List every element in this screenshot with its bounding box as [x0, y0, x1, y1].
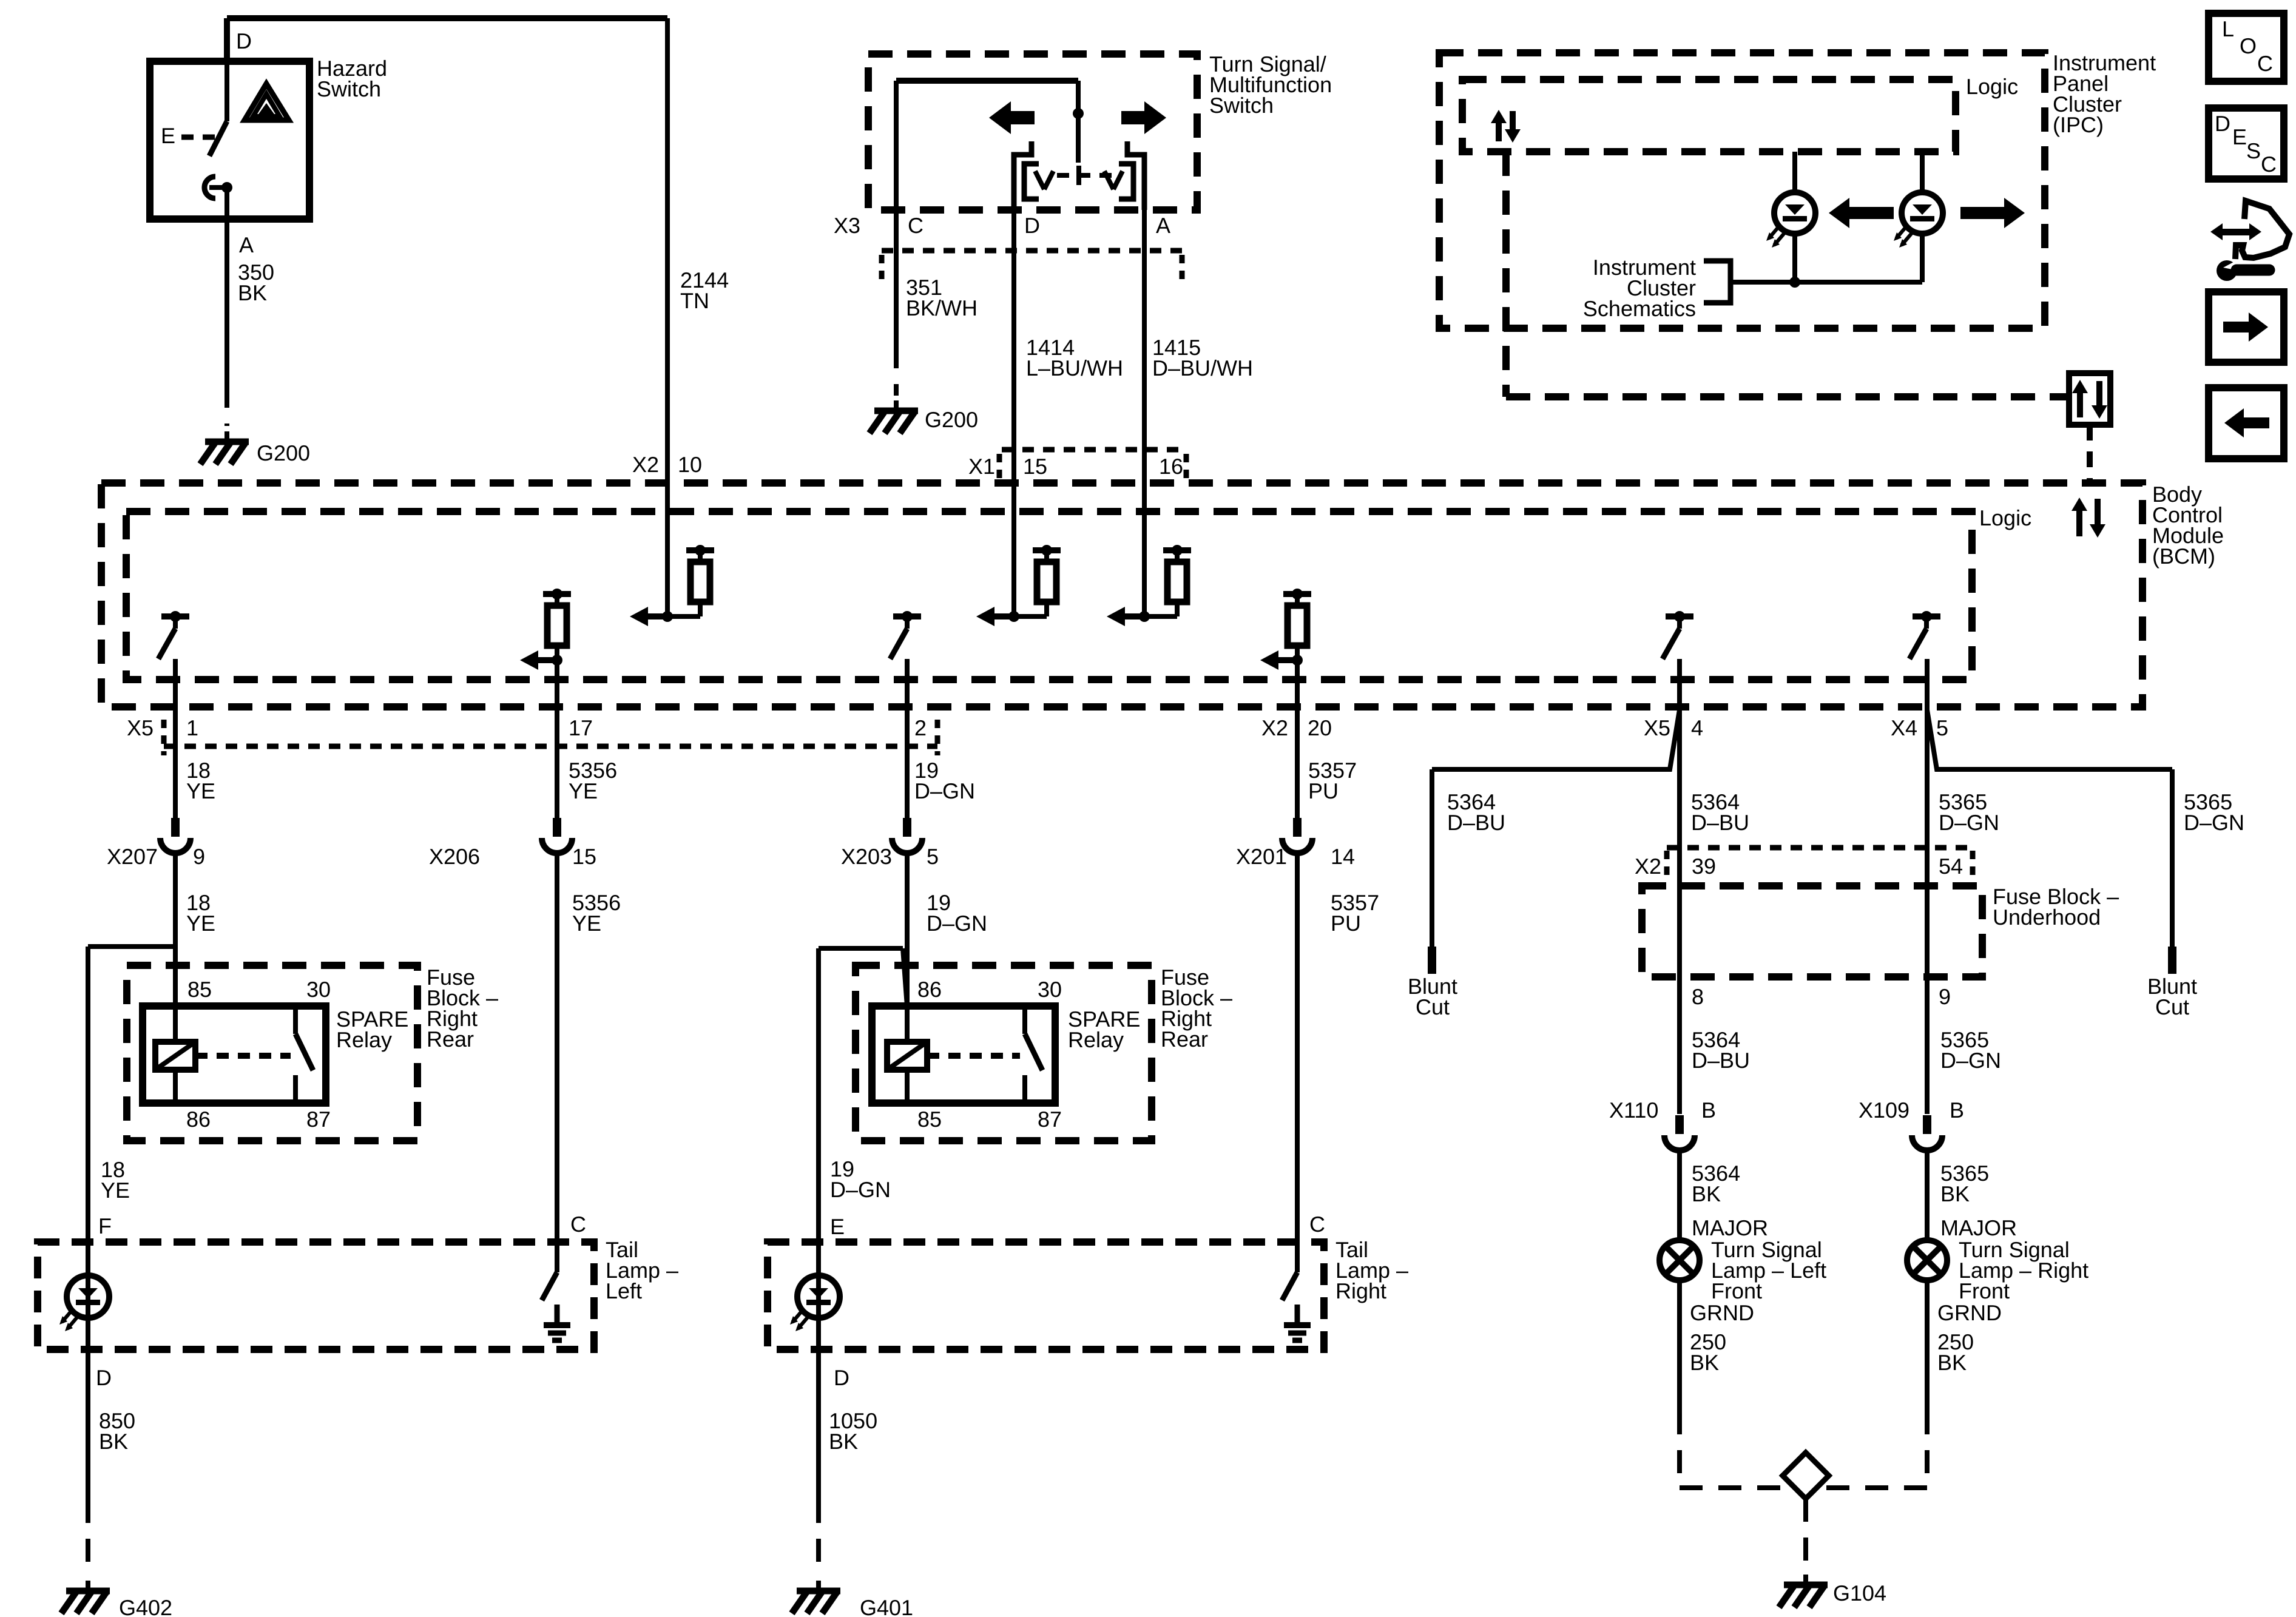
- svg-text:YE: YE: [569, 778, 598, 803]
- tail lamp right LED wire: [816, 1242, 821, 1349]
- svg-text:Underhood: Underhood: [1993, 905, 2101, 930]
- turn signal left arrow: [989, 101, 1035, 134]
- wire 5365 BK: [1925, 1150, 1930, 1240]
- svg-text:O: O: [2240, 33, 2257, 58]
- body control module box: [101, 483, 2142, 707]
- instrument cluster schematics label: [1583, 255, 1696, 321]
- wire 5364 branch: [1432, 710, 1680, 947]
- wire hazard feed top: [227, 18, 667, 61]
- splice to ground dashed: [1803, 1499, 1808, 1570]
- svg-text:Rear: Rear: [1161, 1027, 1208, 1052]
- instrument panel cluster box: [1439, 53, 2045, 328]
- hazard switch box: [150, 61, 309, 219]
- IPC logic label: [1966, 74, 2018, 99]
- BCM switch pin2: [890, 611, 921, 659]
- svg-text:D–GN: D–GN: [914, 778, 975, 803]
- IPC label: [2053, 50, 2156, 137]
- svg-text:D: D: [1024, 213, 1040, 238]
- BCM label: [2152, 482, 2224, 569]
- blunt cut right: [2147, 947, 2197, 1019]
- IPC logic box: [1462, 79, 1956, 152]
- svg-text:BK: BK: [99, 1429, 128, 1454]
- wire 5364 BK: [1677, 1150, 1682, 1240]
- wire switch common: [896, 81, 1078, 210]
- svg-text:D–GN: D–GN: [2184, 810, 2244, 835]
- node D label left: [96, 1365, 112, 1390]
- sidebar icon DESC: [2209, 108, 2284, 179]
- svg-text:Relay: Relay: [1068, 1027, 1124, 1052]
- wire 19 D-GN label upper: [914, 758, 975, 803]
- connector X3 row: [834, 213, 1182, 282]
- svg-text:Left: Left: [606, 1278, 642, 1303]
- wire 1050 BK label: [829, 1408, 877, 1454]
- resistor output 17: [520, 589, 571, 670]
- ground G402: [61, 1581, 172, 1617]
- svg-text:X3: X3: [834, 213, 860, 238]
- tail lamp left box: [38, 1242, 594, 1349]
- svg-text:9: 9: [193, 844, 205, 869]
- svg-text:X206: X206: [429, 844, 480, 869]
- svg-text:20: 20: [1308, 715, 1332, 740]
- svg-text:Cut: Cut: [1416, 994, 1450, 1019]
- turn signal switch label: [1209, 52, 1332, 118]
- svg-text:30: 30: [306, 977, 331, 1002]
- wire to pivot: [1073, 81, 1084, 163]
- wire 250 BK right dashed: [1825, 1411, 1927, 1488]
- resistor 2144 input: [630, 545, 714, 626]
- svg-text:87: 87: [306, 1107, 331, 1132]
- connector X1 row: [968, 450, 1186, 482]
- svg-text:B: B: [1950, 1098, 1964, 1122]
- svg-text:D–BU: D–BU: [1691, 810, 1749, 835]
- svg-text:14: 14: [1331, 844, 1355, 869]
- wire 5356 YE label upper: [569, 758, 617, 803]
- wire 351 dashed to ground: [894, 345, 899, 396]
- svg-text:X4: X4: [1891, 715, 1917, 740]
- connector X201: [1236, 818, 1355, 869]
- svg-text:Relay: Relay: [336, 1027, 392, 1052]
- hazard switch contact: [204, 177, 232, 219]
- node F label: [98, 1214, 112, 1238]
- BCM switch pin5: [1909, 611, 1940, 659]
- serial data arrows: [2072, 380, 2107, 419]
- tail lamp left ground switch: [542, 1242, 557, 1300]
- svg-text:YE: YE: [186, 911, 215, 936]
- wire 18 YE label mid: [186, 890, 215, 936]
- turn signal lamp left front label: [1711, 1237, 1826, 1303]
- pin 8 label: [1692, 984, 1704, 1009]
- svg-text:X110: X110: [1609, 1098, 1658, 1122]
- pin 9 label: [1939, 984, 1951, 1009]
- resistor output 20: [1260, 589, 1311, 670]
- wire 5356 YE long: [555, 853, 559, 1242]
- fuse block right rear box 2: [856, 965, 1152, 1141]
- left contact bracket: [1024, 164, 1053, 199]
- svg-text:MAJOR: MAJOR: [1692, 1215, 1768, 1240]
- fuse block right rear label 1: [427, 965, 498, 1052]
- wire 5365 D-GN main: [1925, 659, 1930, 1114]
- sidebar icon LOC: [2209, 13, 2284, 81]
- svg-text:Front: Front: [1711, 1278, 1762, 1303]
- sidebar icon next arrow: [2209, 292, 2284, 362]
- spare relay 2 labels: [917, 977, 1140, 1132]
- svg-text:X5: X5: [127, 715, 154, 740]
- svg-text:Right: Right: [1335, 1278, 1386, 1303]
- wire 5365 branch label: [2184, 789, 2244, 835]
- ground G104: [1779, 1575, 1886, 1607]
- wire 2144 TN: [665, 18, 670, 616]
- wire to left indicator LED: [1792, 152, 1797, 192]
- svg-text:PU: PU: [1331, 911, 1361, 936]
- wire 1414 label: [1026, 335, 1123, 380]
- tail lamp left label: [606, 1237, 678, 1303]
- hazard warning triangle icon: [245, 84, 289, 120]
- left indicator arrow: [1829, 198, 1894, 228]
- svg-text:BK: BK: [1692, 1181, 1721, 1206]
- svg-text:A: A: [1156, 213, 1170, 238]
- svg-text:BK: BK: [1940, 1181, 1970, 1206]
- connector X207: [107, 818, 205, 869]
- wire 5357 PU long: [1295, 853, 1300, 1242]
- svg-text:D–BU: D–BU: [1692, 1048, 1750, 1073]
- connector X109: [1859, 1098, 1964, 1150]
- turn signal right arrow: [1121, 101, 1166, 134]
- svg-text:(IPC): (IPC): [2053, 112, 2104, 137]
- svg-text:D–BU: D–BU: [1447, 810, 1505, 835]
- svg-text:BK: BK: [238, 280, 267, 305]
- tail lamp right ground switch: [1282, 1242, 1297, 1300]
- node A label: [239, 232, 254, 257]
- wire 1050 BK: [816, 1349, 821, 1500]
- svg-text:GRND: GRND: [1937, 1300, 2002, 1325]
- fuse block right rear box 1: [127, 965, 417, 1141]
- pivot linkage dashes: [1057, 166, 1116, 185]
- connector X5 row: [127, 715, 937, 755]
- svg-text:D–GN: D–GN: [1939, 810, 1999, 835]
- svg-text:16: 16: [1159, 454, 1183, 479]
- wire 1415 label: [1152, 335, 1253, 380]
- wire 5365 branch: [1927, 710, 2172, 947]
- svg-text:C: C: [1309, 1212, 1325, 1237]
- turn signal lamp right front: [1907, 1240, 1947, 1280]
- BCM switch pin4: [1663, 611, 1693, 659]
- node E label: [830, 1214, 845, 1239]
- hazard switch blade: [209, 61, 227, 156]
- IPC inner dashed boundary: [1506, 152, 2069, 397]
- fuse block right rear label 2: [1161, 965, 1232, 1052]
- connector X2 underhood row: [1635, 848, 1973, 880]
- wire 19 D-GN branch to tail lamp: [819, 948, 907, 1242]
- svg-text:YE: YE: [186, 778, 215, 803]
- svg-text:2: 2: [914, 715, 927, 740]
- hazard switch label: [317, 56, 387, 101]
- svg-text:C: C: [908, 213, 923, 238]
- fuse block underhood box: [1642, 886, 1982, 977]
- svg-text:X109: X109: [1859, 1098, 1909, 1122]
- turn signal multifunction switch box: [868, 54, 1197, 210]
- right contact step: [1127, 141, 1144, 210]
- svg-text:X2: X2: [1635, 854, 1661, 879]
- wire 19 D-GN lower label: [830, 1156, 891, 1202]
- wire 350 BK label: [238, 260, 274, 305]
- svg-text:L: L: [2222, 16, 2234, 41]
- tail lamp right LED: [790, 1275, 840, 1331]
- svg-text:D–GN: D–GN: [927, 911, 987, 936]
- svg-text:39: 39: [1692, 854, 1716, 879]
- wire 18 YE mid: [173, 853, 178, 1042]
- wire 18 YE branch to tail lamp: [88, 947, 175, 1242]
- sidebar icon back arrow: [2209, 388, 2284, 459]
- svg-text:X2: X2: [1261, 715, 1288, 740]
- resistor 1414 input: [976, 545, 1061, 626]
- svg-text:87: 87: [1038, 1107, 1062, 1132]
- wire 5364 D-BU lower label: [1692, 1027, 1750, 1073]
- fuse block underhood label: [1993, 884, 2119, 930]
- svg-text:Rear: Rear: [427, 1027, 474, 1052]
- GRND label right: [1937, 1300, 2002, 1325]
- wire 250 BK left: [1680, 1280, 1726, 1411]
- wire 5364 main label: [1691, 789, 1749, 835]
- wire 5365 main label: [1939, 789, 1999, 835]
- wire 5365 BK label: [1940, 1161, 1989, 1206]
- svg-text:BK: BK: [1690, 1350, 1719, 1375]
- wire LED right to bus: [1920, 234, 1925, 282]
- wire 5364 BK label: [1692, 1161, 1740, 1206]
- instrument cluster schematics bracket: [1704, 261, 1730, 303]
- svg-text:Logic: Logic: [1979, 505, 2031, 530]
- svg-text:X2: X2: [632, 452, 659, 477]
- node C label right: [1309, 1212, 1325, 1237]
- LED ground bus: [1730, 277, 1922, 288]
- svg-text:C: C: [2257, 51, 2273, 76]
- svg-text:86: 86: [917, 977, 942, 1002]
- svg-text:E: E: [2232, 124, 2247, 149]
- svg-text:F: F: [98, 1214, 112, 1238]
- spare relay 2: [872, 1006, 1055, 1103]
- wire 351 BK/WH: [894, 210, 899, 345]
- svg-text:X201: X201: [1236, 844, 1287, 869]
- wire 1414 L-BU/WH: [1011, 210, 1016, 616]
- node D label right: [834, 1365, 849, 1390]
- svg-text:5: 5: [1936, 715, 1948, 740]
- tail lamp right signal ground: [1284, 1305, 1311, 1340]
- svg-text:17: 17: [569, 715, 593, 740]
- svg-text:X1: X1: [968, 454, 995, 479]
- node D label: [236, 29, 252, 53]
- svg-text:C: C: [2261, 152, 2277, 177]
- wire 250 BK left dashed: [1680, 1411, 1786, 1488]
- sidebar icon hand wrench: [2210, 201, 2289, 281]
- connector X206: [429, 818, 596, 869]
- svg-text:54: 54: [1939, 854, 1963, 879]
- wire 850 BK dashed: [86, 1500, 90, 1576]
- svg-text:YE: YE: [572, 911, 601, 936]
- hazard switch pin E label: [161, 123, 175, 148]
- ground G200 switch: [869, 400, 978, 433]
- svg-text:Switch: Switch: [1209, 93, 1274, 118]
- svg-text:MAJOR: MAJOR: [1940, 1215, 2017, 1240]
- wire 351 BK/WH label: [906, 275, 977, 320]
- svg-text:15: 15: [1023, 454, 1047, 479]
- IPC updown arrows: [1491, 110, 1521, 143]
- svg-text:Front: Front: [1959, 1278, 2010, 1303]
- serial data box: [2069, 373, 2110, 425]
- ground G401: [792, 1581, 913, 1617]
- svg-text:G200: G200: [925, 407, 978, 432]
- GRND label left: [1690, 1300, 1754, 1325]
- svg-text:D: D: [834, 1365, 849, 1390]
- MAJOR label right: [1940, 1215, 2017, 1240]
- svg-text:E: E: [161, 123, 175, 148]
- svg-text:Cut: Cut: [2155, 994, 2189, 1019]
- wire 250 BK right: [1927, 1280, 1974, 1411]
- blunt cut left: [1408, 947, 1457, 1019]
- connector X203: [841, 818, 939, 869]
- svg-text:YE: YE: [101, 1178, 130, 1203]
- BCM logic box: [126, 511, 1972, 680]
- svg-text:1: 1: [186, 715, 198, 740]
- svg-text:Logic: Logic: [1966, 74, 2018, 99]
- splice diamond: [1783, 1453, 1829, 1499]
- svg-text:S: S: [2246, 138, 2261, 163]
- wire 5365 D-GN lower label: [1940, 1027, 2001, 1073]
- svg-text:G200: G200: [257, 441, 310, 465]
- left contact step: [1014, 141, 1032, 210]
- svg-text:86: 86: [186, 1107, 211, 1132]
- svg-text:9: 9: [1939, 984, 1951, 1009]
- node C label left: [570, 1212, 586, 1237]
- svg-text:D: D: [236, 29, 252, 53]
- wire 19 D-GN upper: [905, 659, 910, 818]
- turn signal lamp right front label: [1959, 1237, 2088, 1303]
- spare relay 1: [143, 1006, 326, 1103]
- svg-text:PU: PU: [1308, 778, 1339, 803]
- serial data dashed link: [2087, 425, 2093, 483]
- connector X4 pin5 labels: [1891, 715, 1948, 740]
- wire 1415 D-BU/WH: [1142, 210, 1147, 616]
- svg-text:C: C: [570, 1212, 586, 1237]
- MAJOR label left: [1692, 1215, 1768, 1240]
- wire 5364 D-BU main: [1677, 659, 1682, 1114]
- svg-text:85: 85: [187, 977, 212, 1002]
- svg-text:Switch: Switch: [317, 76, 381, 101]
- svg-text:L–BU/WH: L–BU/WH: [1026, 356, 1123, 380]
- svg-text:A: A: [239, 232, 254, 257]
- svg-text:Schematics: Schematics: [1583, 296, 1696, 321]
- wire 18 YE lower label: [101, 1157, 130, 1203]
- wire 18 YE upper: [173, 659, 178, 818]
- connector X2 pin20 labels: [1261, 715, 1332, 740]
- svg-text:8: 8: [1692, 984, 1704, 1009]
- svg-text:B: B: [1701, 1098, 1716, 1122]
- wire 19 D-GN label mid: [927, 890, 987, 936]
- tail lamp right box: [768, 1242, 1324, 1349]
- svg-text:D–GN: D–GN: [830, 1177, 891, 1202]
- right contact bracket: [1104, 164, 1133, 199]
- indicator LED right: [1894, 192, 1943, 248]
- wire 5357 PU label mid: [1331, 890, 1379, 936]
- svg-text:BK: BK: [1937, 1350, 1967, 1375]
- tail lamp left LED: [59, 1275, 109, 1331]
- svg-text:X203: X203: [841, 844, 892, 869]
- BCM logic label: [1979, 505, 2031, 530]
- wire 850 BK: [86, 1349, 90, 1500]
- svg-text:G104: G104: [1833, 1581, 1886, 1605]
- svg-text:D–BU/WH: D–BU/WH: [1152, 356, 1253, 380]
- spare relay 1 labels: [186, 977, 408, 1132]
- svg-text:5: 5: [927, 844, 939, 869]
- wire 5356 YE upper: [555, 660, 559, 818]
- right indicator arrow: [1960, 198, 2025, 228]
- svg-text:X5: X5: [1644, 715, 1670, 740]
- tail lamp right label: [1335, 1237, 1408, 1303]
- wire LED left to bus: [1792, 234, 1797, 282]
- svg-text:BK: BK: [829, 1429, 858, 1454]
- tail lamp left signal ground: [544, 1305, 570, 1340]
- svg-text:15: 15: [572, 844, 596, 869]
- indicator LED left: [1766, 192, 1815, 248]
- connector X110: [1609, 1098, 1716, 1150]
- wire 5364 branch label: [1447, 789, 1505, 835]
- svg-text:X207: X207: [107, 844, 158, 869]
- svg-text:GRND: GRND: [1690, 1300, 1754, 1325]
- connector X2 pin 10 labels: [632, 452, 702, 477]
- wire 350 BK dashed to ground: [225, 385, 229, 426]
- wire 5356 YE label mid: [572, 890, 621, 936]
- wire 18 YE label upper: [186, 758, 215, 803]
- svg-text:D–GN: D–GN: [1940, 1048, 2001, 1073]
- wire 1050 BK dashed: [816, 1500, 821, 1576]
- svg-text:E: E: [830, 1214, 845, 1239]
- svg-text:10: 10: [678, 452, 702, 477]
- svg-text:4: 4: [1691, 715, 1703, 740]
- wire 5357 PU label upper: [1308, 758, 1357, 803]
- tail lamp left LED wire: [86, 1242, 90, 1349]
- svg-text:TN: TN: [680, 288, 709, 313]
- hazard switch E linkage: [181, 135, 215, 140]
- svg-text:85: 85: [917, 1107, 942, 1132]
- wire 850 BK label: [99, 1408, 135, 1454]
- svg-text:G401: G401: [860, 1595, 913, 1617]
- svg-text:BK/WH: BK/WH: [906, 295, 977, 320]
- svg-text:D: D: [96, 1365, 112, 1390]
- resistor 1415 input: [1107, 545, 1191, 626]
- wire 2144 TN label: [680, 268, 729, 313]
- BCM switch pin1: [158, 611, 189, 659]
- wire 350 BK: [225, 219, 229, 385]
- wire to right indicator LED: [1920, 152, 1925, 192]
- ground G200 hazard: [200, 431, 310, 465]
- svg-text:(BCM): (BCM): [2152, 544, 2215, 569]
- wire 5357 PU upper: [1295, 660, 1300, 818]
- svg-text:30: 30: [1038, 977, 1062, 1002]
- connector X5 pin4 labels: [1644, 715, 1703, 740]
- svg-text:G402: G402: [119, 1595, 172, 1617]
- BCM updown arrows: [2071, 498, 2105, 538]
- wire 19 D-GN mid: [905, 853, 910, 1042]
- svg-text:D: D: [2215, 111, 2230, 136]
- turn signal lamp left front: [1660, 1240, 1700, 1280]
